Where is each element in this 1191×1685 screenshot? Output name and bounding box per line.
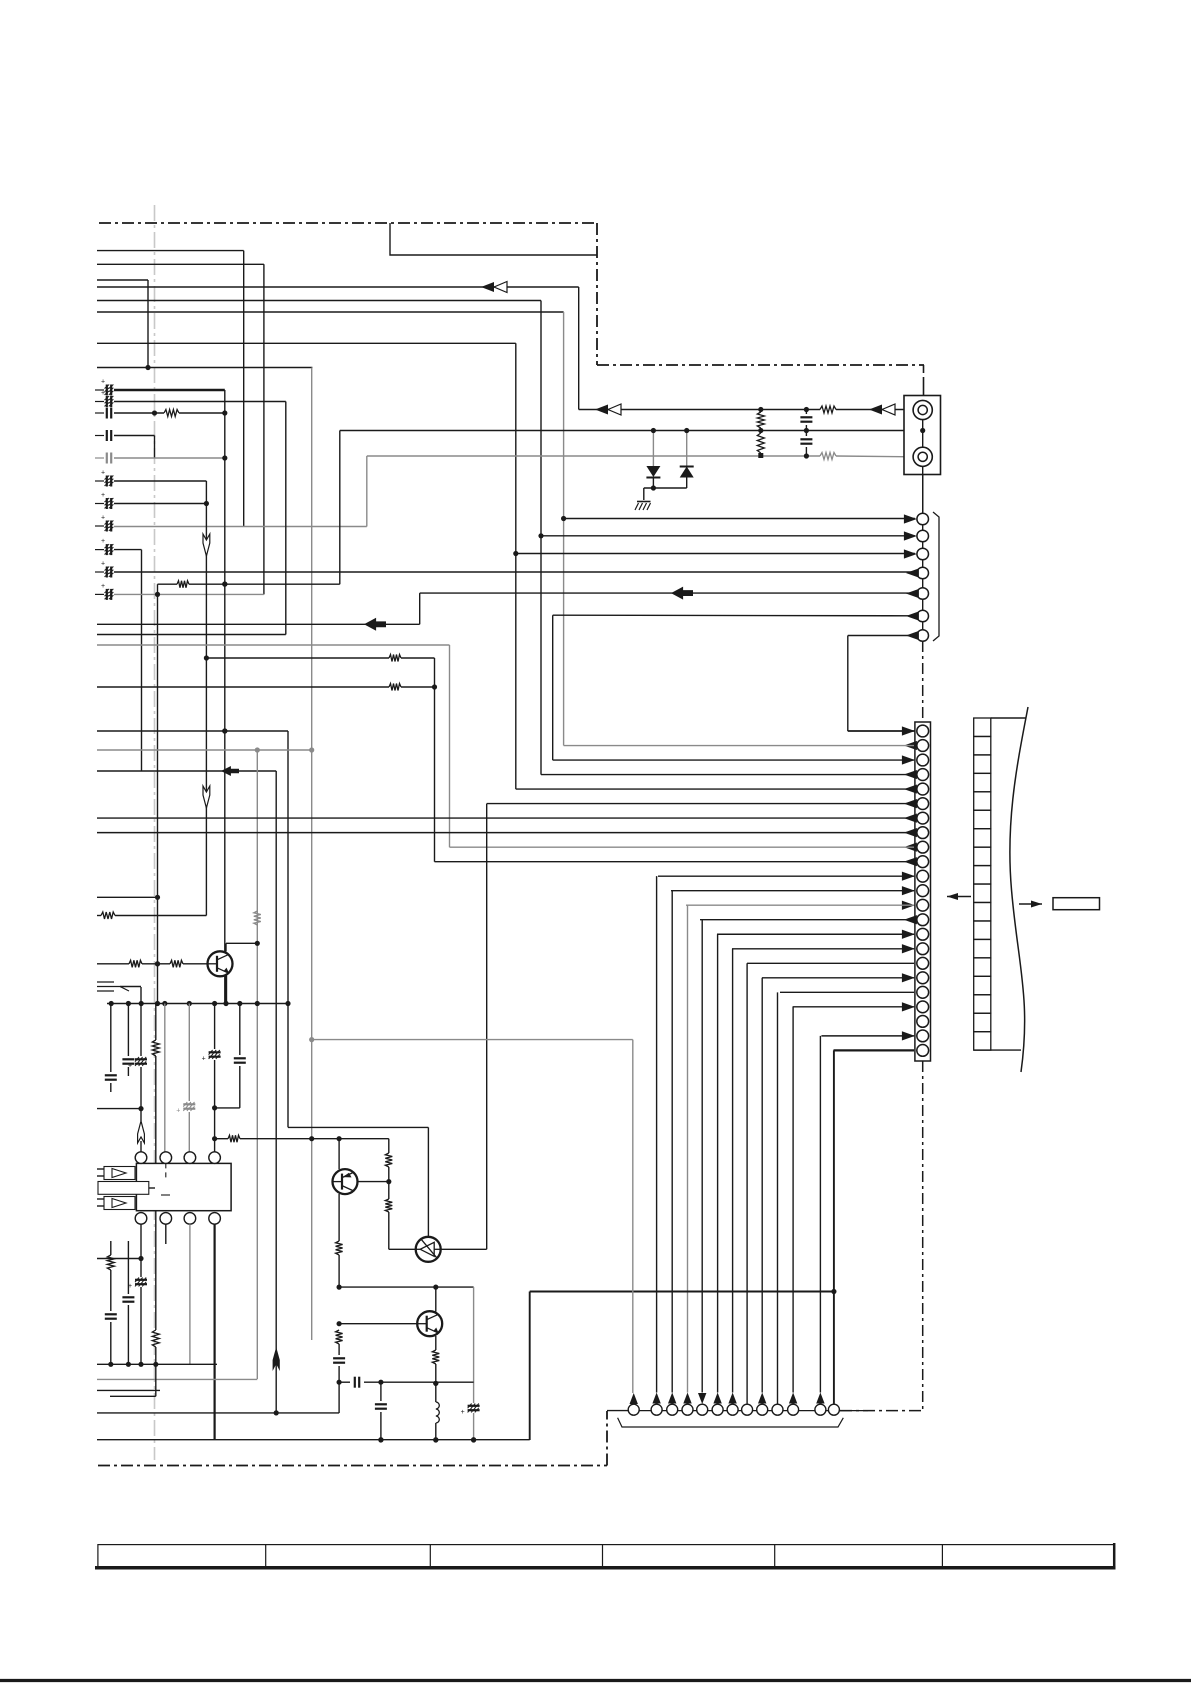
wire bus y343 (97, 342, 516, 344)
box wire x552 (552, 615, 554, 760)
wire x206 left leg (115, 915, 206, 917)
svg-text:+: + (101, 470, 105, 477)
feather arrow on x206 a (203, 534, 210, 556)
wire Q4 emitter (435, 1336, 437, 1350)
connector CN2 pin 7 (917, 812, 929, 824)
cap x474 pol (468, 1405, 480, 1407)
wire C1 thick (114, 389, 225, 391)
fan wire x732.6 (732, 949, 734, 1393)
connector CN2 pin 14 (917, 914, 929, 926)
resistor divider x761 upper (757, 412, 764, 428)
svg-text:+: + (101, 583, 105, 590)
wire bus y287 with arrow (97, 286, 579, 288)
feather filled on x276 (273, 1347, 280, 1371)
wire bus v x312 (311, 368, 313, 1341)
bottom arrow at x687.5 (683, 1393, 691, 1404)
connector CN2 pin 21 (917, 1015, 929, 1027)
capacitor C2 left column (95, 401, 104, 403)
cap x110 low (110, 1241, 112, 1255)
double arrow into jack (869, 405, 882, 415)
wire v x288 (287, 731, 289, 1127)
wire to CN2 pin 11 (658, 875, 914, 877)
capacitor C3 left column (95, 412, 104, 414)
rca jack 2 (913, 447, 932, 466)
wire bus y264 (97, 263, 264, 265)
wire y1382 w cap (339, 1381, 350, 1383)
connector CN3 pin 9 (757, 1404, 768, 1415)
wire to CN2 pin 14 (700, 919, 914, 921)
fan wire x777.5 (777, 992, 779, 1403)
IC U1 top pin 3 (184, 1152, 196, 1164)
wire v x487 (486, 804, 488, 1250)
wire y634 (97, 634, 286, 636)
wire to CN2 pin 23 (834, 1049, 915, 1051)
wire y456 grey to jack (367, 455, 820, 457)
wire to CN2 pin 9 (450, 846, 915, 848)
diode D1 (652, 431, 654, 467)
wire to CN2 pin 16 (732, 948, 914, 950)
wire pin536 (541, 535, 915, 537)
IC U1 bottom pin 4 (209, 1213, 221, 1225)
wire Q1 collector (225, 943, 227, 951)
wire to CN2 pin 22 (821, 1035, 914, 1037)
wire to CN2 pin 6 (487, 803, 914, 805)
wire y1139 w resistor (215, 1138, 228, 1140)
rail y1003 (107, 1003, 288, 1005)
capacitor C11 left column (95, 593, 104, 595)
IC U1 bottom pin 2 (160, 1213, 172, 1225)
resistor x339 a (336, 1241, 343, 1255)
ribbon cells (974, 718, 991, 736)
wire y624 with arrow (97, 623, 420, 625)
wire v x189 (188, 1004, 190, 1102)
connector CN2 pin 10 (917, 856, 929, 868)
wire Q1 base (97, 963, 129, 965)
wire v x449 grey (449, 645, 451, 847)
svg-text:+: + (101, 538, 105, 545)
left stub y987 (97, 982, 129, 991)
wire Q1 emitter (225, 976, 227, 1004)
wire bus y250 (97, 250, 244, 252)
rail y1379 grey (97, 1378, 257, 1380)
transistor Q2 (333, 1169, 358, 1194)
wire v x381 (380, 1382, 382, 1401)
capacitor C1 left column (95, 389, 104, 391)
wire to CN2 pin 17 (747, 962, 914, 964)
wire bus v x244 (243, 251, 245, 526)
connector CN3 pin 3 (667, 1404, 678, 1415)
thick wire x834 (833, 1050, 835, 1403)
fan wire x717.6 (717, 934, 719, 1392)
connector CN1 pin 5 (917, 588, 929, 600)
IC internal dash (165, 1163, 167, 1178)
cap x240 branch (239, 1004, 241, 1056)
wire Q4 base (339, 1323, 418, 1325)
wire y430 to jack (340, 430, 923, 432)
label box (1053, 898, 1100, 910)
wire pin519 (564, 518, 915, 520)
fan wire x687.5 (687, 905, 689, 1392)
wire y750 grey (97, 749, 312, 751)
wire to CN2 pin 3 (553, 759, 914, 761)
wire C10 long to pin (114, 571, 915, 573)
connector CN1 pin 7 (917, 630, 929, 642)
connector CN2 pin 8 (917, 827, 929, 839)
arrow left small (947, 896, 971, 898)
wire y897 (97, 896, 158, 898)
notch box under top border (390, 223, 597, 255)
wire C8 grey (114, 526, 367, 528)
rca jack box (904, 396, 941, 475)
wire y409 jack1 (579, 409, 820, 411)
thick wire x530 (529, 1292, 531, 1441)
7pin chain line (922, 466, 924, 641)
wire y1440 (97, 1439, 530, 1441)
wire pin635 (848, 635, 915, 637)
bottom arrow at x820.4 (816, 1393, 824, 1404)
wire to CN2 pin 15 (717, 933, 914, 935)
grey wire y1040 (312, 1039, 633, 1041)
cap x128 low (127, 1241, 129, 1294)
wire y1413 (97, 1412, 339, 1414)
capacitor C5 left column (95, 457, 104, 459)
wire Q3 right (440, 1248, 486, 1250)
wire y1258 (97, 1258, 141, 1260)
wire bus y300 (97, 300, 541, 302)
arrow right small (1019, 903, 1042, 905)
connector CN1 pin 3 (917, 548, 929, 560)
bottom arrow at x672.2 (668, 1393, 676, 1404)
wire v x434 (434, 658, 436, 862)
fan wire x656.6 (656, 876, 658, 1392)
footer rule (0, 1679, 1191, 1682)
grey fan wire x633 (632, 1040, 634, 1393)
wire y658 w resistor (206, 657, 389, 659)
cap x128 (127, 1004, 129, 1057)
wire Q2 emitter (338, 1194, 340, 1241)
IC U1 bottom pin 1 (135, 1213, 147, 1225)
fan wire x672.2 (671, 891, 673, 1393)
bottom arrow x633 (630, 1393, 638, 1404)
wire y645 grey (97, 644, 450, 646)
ribbon wave (1010, 707, 1028, 1072)
bottom arrow at x656.6 (652, 1393, 660, 1404)
wire bus v x148 (147, 280, 149, 368)
wire bus v x564 grey (563, 312, 565, 746)
wire Q2 base (358, 1181, 389, 1183)
resistor divider x761 lower (757, 433, 764, 453)
svg-text:+: + (101, 561, 105, 568)
wire v x276 (275, 771, 277, 1413)
bottom bracket (618, 1418, 844, 1427)
resistor R2 y456 grey (820, 453, 836, 460)
wire v x474 grey (473, 1287, 475, 1403)
bottom arrow at x717.6 (713, 1393, 721, 1404)
wire y1108 (97, 1108, 141, 1110)
diode join wire (644, 487, 687, 489)
svg-text:+: + (101, 390, 105, 397)
dash link below 23pin (922, 1061, 924, 1410)
wire v x286 (285, 402, 287, 635)
connector CN3 pin 10 (772, 1404, 783, 1415)
fan wire x793.1 (792, 1007, 794, 1393)
wire y771 w arrow (97, 770, 276, 772)
wire y1287 (339, 1286, 474, 1288)
IC filter box (98, 1182, 149, 1195)
wire to CN2 pin 5 (516, 788, 914, 790)
dash link below 7pin (922, 641, 924, 722)
wire v x341 (339, 431, 341, 585)
connector CN2 pin 17 (917, 957, 929, 969)
wire bus v x579 (578, 287, 580, 410)
connector CN2 pin 9 (917, 841, 929, 853)
wire v x206 (205, 481, 207, 916)
chassis dash-dot border right vertical (596, 223, 598, 365)
capacitor C10 left column (95, 571, 104, 573)
bottom dashdot right (840, 1410, 923, 1412)
connector CN2 pin 20 (917, 1001, 929, 1013)
wire C5 grey (114, 457, 225, 459)
7pin bracket (933, 512, 939, 641)
wire v x155 (155, 1004, 157, 1041)
connector CN2 pin 4 (917, 769, 929, 781)
23pin connector body (915, 722, 931, 1061)
capacitor C6 left column (95, 480, 104, 482)
wire x288 corner to x428 (288, 1126, 428, 1128)
connector CN3 pin 13 (828, 1404, 839, 1415)
wire y593 to pin (420, 592, 915, 594)
revision table (98, 1545, 1114, 1568)
wire bus v x516 (515, 343, 517, 789)
wire to CN2 pin 13 (686, 904, 914, 906)
wire v x141b (141, 550, 143, 771)
IC U1 bottom pin 3 (184, 1213, 196, 1225)
capacitor x806 lower (805, 431, 807, 437)
connector CN3 pin 2 (651, 1404, 662, 1415)
capacitor C9 left column (95, 549, 104, 551)
wire C4 (114, 435, 155, 437)
capacitor C7 left column (95, 503, 104, 505)
wire x848 vert (847, 636, 849, 732)
resistor x257 grey (254, 911, 261, 925)
connector CN2 pin 13 (917, 899, 929, 911)
bottom dash-dot border vertical (606, 1411, 608, 1466)
capacitor x806 upper (805, 410, 807, 415)
bottom arrow at x793.1 (789, 1393, 797, 1404)
bottom arrow at x762.2 (758, 1393, 766, 1404)
rca jack 1 (913, 400, 932, 419)
IC U1 top pin 2 (160, 1152, 172, 1164)
inductor L1 (436, 1402, 440, 1423)
bottom arrow at x732.6 (728, 1393, 736, 1404)
connector CN2 pin 22 (917, 1030, 929, 1042)
IC opamp B (104, 1197, 135, 1210)
wire y1390 (97, 1389, 160, 1391)
diode D2 (686, 431, 688, 468)
coil x436 (435, 1383, 437, 1402)
ribbon top line (991, 717, 1026, 719)
ribbon bottom line (974, 1049, 1021, 1051)
wire C2 (114, 401, 286, 403)
rail y1364 (97, 1363, 217, 1365)
connector CN2 pin 2 (917, 740, 929, 752)
wire y731 (97, 730, 288, 732)
connector CN3 pin 6 (712, 1404, 723, 1415)
bottom dash-dot border (98, 1465, 607, 1467)
fan wire x820.4 (819, 1036, 821, 1393)
resistor x110 low (107, 1255, 114, 1270)
connector CN2 pin 18 (917, 972, 929, 984)
wire bus y280 (97, 279, 148, 281)
IC U1 body (136, 1163, 231, 1210)
wire v x214 (214, 1004, 216, 1050)
connector CN2 pin 19 (917, 986, 929, 998)
wire Q2 collector (338, 1139, 340, 1170)
connector CN2 pin 6 (917, 798, 929, 810)
wire pin554 (516, 553, 915, 555)
wire pin b1 down (140, 1224, 142, 1277)
wire y1396 stub (110, 1395, 156, 1397)
thick wire y1291 (530, 1291, 834, 1293)
connector CN3 pin 11 (788, 1404, 799, 1415)
wire to CN2 pin 4 (541, 774, 914, 776)
wire x339 bottom (338, 1382, 340, 1413)
bottom bus wire (607, 1410, 628, 1412)
connector CN2 pin 5 (917, 783, 929, 795)
cap x141 pol (135, 1279, 147, 1281)
wire C3 w resistor (114, 412, 164, 414)
wire v x141 upper (140, 1004, 142, 1057)
wire C8 riser grey (366, 456, 368, 527)
connector CN3 pin 4 (682, 1404, 693, 1415)
connector CN3 pin 5 (697, 1404, 708, 1415)
wire to CN2 pin 2 (564, 745, 914, 747)
wire to CN2 pin 12 (671, 890, 914, 892)
connector CN3 pin 12 (815, 1404, 826, 1415)
ground symbol (637, 501, 651, 503)
wire v x389 upper (388, 1139, 390, 1153)
fold line grey dash-dot (154, 205, 156, 1460)
wire v x389 lower (388, 1182, 390, 1199)
feather arrow on x206 b (203, 786, 210, 808)
wire to CN2 pin 8 (97, 832, 914, 834)
svg-text:+: + (176, 1108, 180, 1115)
connector CN1 pin 1 (917, 513, 929, 525)
svg-text:+: + (101, 492, 105, 499)
connector CN1 pin 2 (917, 530, 929, 542)
wire jack to connector (922, 475, 924, 513)
wire pin b2 stub (165, 1224, 167, 1244)
connector CN2 pin 12 (917, 885, 929, 897)
wire pin b4 down (214, 1224, 216, 1440)
wire v x225 (224, 390, 226, 1004)
connector CN2 pin 15 (917, 928, 929, 940)
transistor Q3 (416, 1237, 441, 1262)
connector CN2 pin 3 (917, 754, 929, 766)
chassis dash-dot border top (99, 222, 597, 224)
connector CN3 pin 1 (628, 1404, 639, 1415)
wire C9 (114, 549, 142, 551)
wire bus v x541 (540, 301, 542, 775)
capacitor C4 left column (95, 435, 104, 437)
wire to CN2 pin 7 (97, 817, 914, 819)
connector CN3 pin 7 (727, 1404, 738, 1415)
wire to CN2 pin 1 (848, 730, 914, 732)
wire v x257 grey (256, 750, 258, 1379)
wire bus y312 (97, 311, 564, 313)
bottom arrow at x702.2 (698, 1393, 706, 1404)
wire bus v x264 (263, 264, 265, 594)
wire pin b3 down (189, 1224, 191, 1364)
wire to CN2 pin 10 (435, 861, 915, 863)
chassis dash-dot stub to jack box (923, 365, 925, 384)
wire C11 grey (114, 593, 264, 595)
connector CN2 pin 16 (917, 943, 929, 955)
chassis dash-dot border mid horizontal (597, 364, 924, 366)
wire v x436 to Q4 (435, 1287, 437, 1312)
fan wire x747.1 (746, 963, 748, 1404)
wire to CN2 pin 19 (780, 991, 914, 993)
resistor R y409 (820, 406, 836, 413)
wire to CN2 pin 20 (793, 1006, 914, 1008)
connector CN3 pin 8 (742, 1404, 753, 1415)
wire y687 w resistor (97, 686, 389, 688)
connector CN1 pin 6 (917, 610, 929, 622)
IC U1 top pin 4 (209, 1152, 221, 1164)
wire v x420 (419, 593, 421, 624)
wire bus y367 (97, 367, 312, 369)
svg-text:+: + (461, 1409, 465, 1416)
transistor Q1 (208, 951, 233, 976)
wire v x165 grey (164, 1004, 166, 1152)
wire C7 (114, 503, 206, 505)
connector CN2 pin 11 (917, 870, 929, 882)
wire to CN2 pin 18 (762, 977, 914, 979)
capacitor C8 left column (95, 525, 104, 527)
resistor branch y584 (157, 584, 159, 594)
IC opamp A (104, 1167, 135, 1180)
wire v x157 (157, 594, 159, 1003)
svg-text:+: + (101, 379, 105, 386)
connector CN1 pin 4 (917, 567, 929, 579)
resistor x339 b (336, 1330, 343, 1344)
cap x110 (110, 1004, 112, 1073)
fan wire x702.2 (701, 920, 703, 1393)
cap x339 (333, 1357, 345, 1359)
IC U1 top pin 1 (135, 1152, 147, 1164)
wire y731 right (848, 730, 915, 732)
connector CN2 pin 1 (917, 725, 929, 737)
svg-text:+: + (202, 1056, 206, 1063)
rca center link (922, 420, 924, 448)
wire C6 (114, 480, 206, 482)
cap x381 (375, 1403, 387, 1405)
wire v x214 to IC (214, 1139, 216, 1152)
transistor Q4 (417, 1311, 442, 1336)
fan wire x762.2 (761, 978, 763, 1393)
svg-text:+: + (101, 515, 105, 522)
connector CN2 pin 23 (917, 1045, 929, 1057)
